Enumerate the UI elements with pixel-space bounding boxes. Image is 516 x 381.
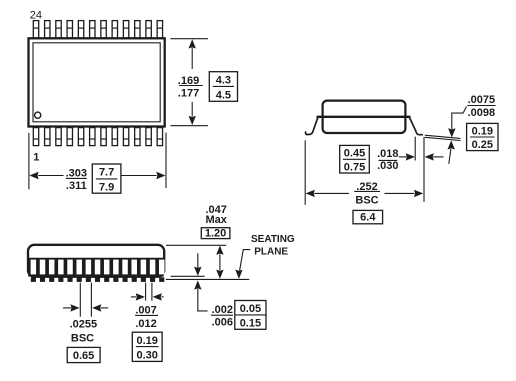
svg-text:.006: .006 <box>212 317 233 329</box>
svg-text:0.15: 0.15 <box>240 317 261 329</box>
svg-text:1.20: 1.20 <box>205 228 226 240</box>
svg-text:.177: .177 <box>178 88 199 100</box>
svg-text:4.3: 4.3 <box>216 75 231 87</box>
svg-text:0.19: 0.19 <box>472 125 493 137</box>
svg-text:BSC: BSC <box>71 333 94 345</box>
svg-text:4.5: 4.5 <box>216 90 231 102</box>
svg-text:1: 1 <box>33 151 39 163</box>
svg-text:.002: .002 <box>212 304 233 316</box>
svg-text:0.45: 0.45 <box>344 148 365 160</box>
svg-text:0.65: 0.65 <box>73 350 94 362</box>
svg-text:0.75: 0.75 <box>344 162 365 174</box>
svg-text:.303: .303 <box>66 167 87 179</box>
svg-text:0.05: 0.05 <box>240 303 261 315</box>
svg-text:24: 24 <box>30 10 42 22</box>
svg-text:.0098: .0098 <box>468 107 496 119</box>
svg-text:Max: Max <box>205 214 227 226</box>
svg-text:0.30: 0.30 <box>136 350 157 362</box>
svg-text:.0075: .0075 <box>468 94 496 106</box>
svg-text:7.7: 7.7 <box>99 167 114 179</box>
svg-text:PLANE: PLANE <box>254 247 288 258</box>
svg-text:BSC: BSC <box>355 194 378 206</box>
svg-text:.0255: .0255 <box>70 318 98 330</box>
svg-text:7.9: 7.9 <box>99 181 114 193</box>
svg-text:0.25: 0.25 <box>472 139 493 151</box>
svg-text:.018: .018 <box>377 148 398 160</box>
svg-text:6.4: 6.4 <box>360 212 376 224</box>
svg-text:SEATING: SEATING <box>251 234 295 245</box>
svg-text:.030: .030 <box>377 160 398 172</box>
svg-text:.311: .311 <box>66 180 87 192</box>
svg-text:0.19: 0.19 <box>136 335 157 347</box>
svg-text:.012: .012 <box>135 318 156 330</box>
svg-text:.007: .007 <box>135 304 156 316</box>
